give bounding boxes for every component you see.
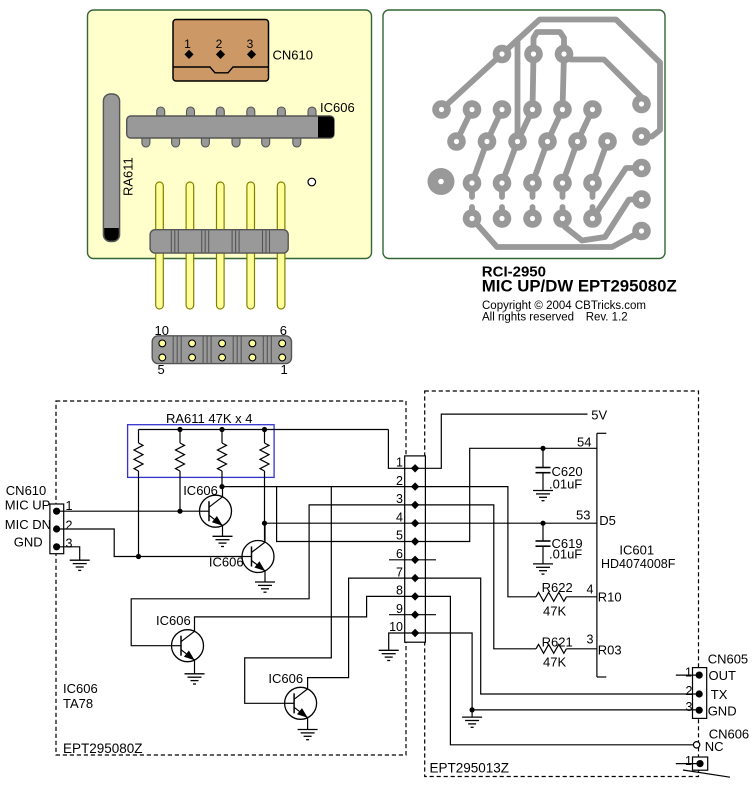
svg-text:4: 4 <box>587 583 594 597</box>
svg-text:1: 1 <box>685 666 692 680</box>
svg-text:3: 3 <box>686 700 693 714</box>
svg-text:CN610: CN610 <box>6 483 46 498</box>
svg-text:.01uF: .01uF <box>549 477 582 492</box>
svg-text:IC606: IC606 <box>268 671 303 686</box>
svg-text:2: 2 <box>396 474 403 488</box>
svg-text:1: 1 <box>281 362 288 377</box>
svg-text:47K: 47K <box>543 604 566 619</box>
svg-text:GND: GND <box>708 703 737 718</box>
svg-text:10: 10 <box>389 620 403 634</box>
svg-text:1: 1 <box>66 499 73 513</box>
svg-text:NC: NC <box>705 739 724 754</box>
svg-text:All rights reserved: All rights reserved <box>482 312 574 324</box>
svg-text:RA611 47K x 4: RA611 47K x 4 <box>166 411 252 426</box>
svg-text:6: 6 <box>280 323 287 338</box>
svg-text:TA78: TA78 <box>63 696 93 711</box>
svg-text:EPT295080Z: EPT295080Z <box>63 741 143 756</box>
svg-text:2: 2 <box>216 37 223 51</box>
svg-text:Copyright © 2004 CBTricks.com: Copyright © 2004 CBTricks.com <box>482 300 646 312</box>
svg-text:2: 2 <box>66 519 73 533</box>
svg-text:6: 6 <box>396 547 403 561</box>
svg-text:GND: GND <box>14 534 43 549</box>
svg-text:5V: 5V <box>591 408 607 423</box>
svg-text:53: 53 <box>576 508 590 523</box>
svg-text:IC606: IC606 <box>320 100 355 115</box>
svg-text:9: 9 <box>396 602 403 616</box>
svg-text:R10: R10 <box>598 590 622 605</box>
svg-text:RA611: RA611 <box>121 157 136 196</box>
svg-text:47K: 47K <box>543 655 566 670</box>
svg-text:MIC DN: MIC DN <box>5 517 51 532</box>
svg-text:MIC UP: MIC UP <box>5 498 51 513</box>
svg-text:8: 8 <box>396 584 403 598</box>
svg-text:D5: D5 <box>599 513 616 528</box>
svg-text:10: 10 <box>155 323 169 338</box>
svg-text:IC606: IC606 <box>63 681 98 696</box>
svg-text:OUT: OUT <box>709 668 737 683</box>
svg-text:IC606: IC606 <box>183 483 218 498</box>
svg-text:5: 5 <box>396 529 403 543</box>
svg-text:HD4074008F: HD4074008F <box>601 557 676 571</box>
svg-text:1: 1 <box>396 456 403 470</box>
svg-text:3: 3 <box>587 633 594 647</box>
svg-text:1: 1 <box>184 37 191 51</box>
svg-text:IC606: IC606 <box>156 613 191 628</box>
svg-text:MIC UP/DW EPT295080Z: MIC UP/DW EPT295080Z <box>482 277 677 296</box>
svg-text:CN605: CN605 <box>708 652 748 667</box>
svg-text:54: 54 <box>577 435 591 450</box>
svg-text:3: 3 <box>247 37 254 51</box>
svg-text:.01uF: .01uF <box>549 547 582 562</box>
svg-text:TX: TX <box>711 687 728 702</box>
svg-text:7: 7 <box>396 565 403 579</box>
svg-text:2: 2 <box>686 684 693 698</box>
svg-text:4: 4 <box>396 510 403 524</box>
svg-text:R621: R621 <box>542 635 573 650</box>
svg-text:5: 5 <box>158 362 165 377</box>
svg-text:EPT295013Z: EPT295013Z <box>430 761 510 776</box>
svg-text:IC601: IC601 <box>619 543 654 558</box>
svg-text:IC606: IC606 <box>209 555 244 570</box>
svg-text:1: 1 <box>685 754 692 768</box>
svg-text:R622: R622 <box>542 580 573 595</box>
svg-text:R03: R03 <box>598 643 622 658</box>
svg-text:3: 3 <box>66 537 73 551</box>
svg-text:3: 3 <box>396 492 403 506</box>
svg-text:Rev. 1.2: Rev. 1.2 <box>586 312 628 324</box>
svg-text:CN610: CN610 <box>273 48 313 63</box>
